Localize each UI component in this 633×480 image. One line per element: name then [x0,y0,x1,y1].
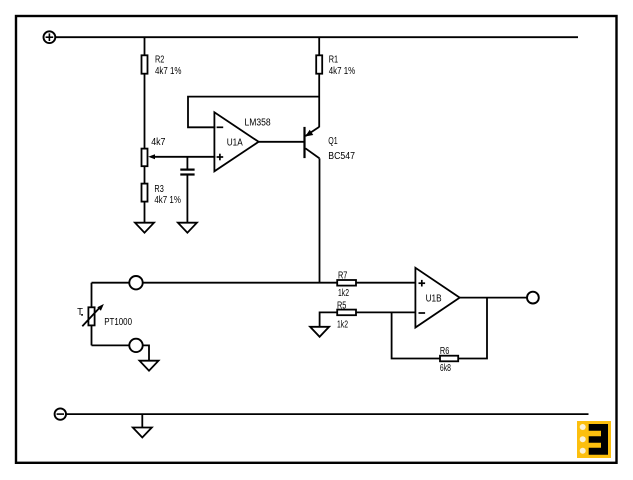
svg-text:Q1: Q1 [328,136,338,147]
wire R1 bottom to Q1 emitter [318,74,320,128]
svg-text:R2: R2 [155,55,165,66]
wire pot wiper to U1A plus input [154,156,215,158]
ground below capacitor [178,223,197,233]
potentiometer 4k7 [142,137,166,166]
svg-text:T: T [77,307,83,318]
ground on bottom rail [133,428,152,438]
wire R2 bottom to pot top [144,74,146,149]
wire U1B output [460,297,527,299]
svg-text:BC547: BC547 [328,151,355,162]
wire Q1 collector down [319,158,321,282]
svg-text:R6: R6 [440,346,450,357]
svg-text:U1B: U1B [426,293,442,304]
wire pot bottom to R3 top [144,166,146,183]
resistor R1 [316,55,355,77]
op-amp U1B [415,268,459,328]
wire R5 to U1B minus input [356,311,416,313]
svg-text:6k8: 6k8 [440,363,451,374]
svg-text:1k2: 1k2 [337,319,348,330]
logo badge [577,421,611,458]
wire U1A inverting input feedback [188,97,319,128]
resistor R7 [337,271,356,300]
wire bottom rail [66,413,589,415]
svg-text:R5: R5 [337,300,347,311]
wire U1A output to Q1 base [259,141,305,143]
resistor R2 [142,55,182,77]
capacitor C1 [180,170,194,175]
svg-text:U1A: U1A [227,138,243,149]
resistor R3 [142,184,181,207]
wire R7 to U1B plus input [356,282,416,284]
resistor R5 [337,300,356,330]
wire sensor terminal to R7 left [143,282,338,284]
ground below sensor [140,361,159,371]
wire sensor left vertical [91,283,93,308]
wire sensor bottom horizontal [92,344,130,346]
svg-text:4k7 1%: 4k7 1% [329,66,356,77]
svg-text:R7: R7 [338,271,348,282]
wire R1 top lead [318,37,320,55]
terminal V- (minus) [55,408,66,419]
terminal sensor bottom [129,339,142,352]
wire top supply rail [55,36,578,38]
wire sensor bottom lead [91,325,93,345]
svg-text:PT1000: PT1000 [104,317,132,328]
wire sensor top to R7 [92,282,130,284]
resistor R6 [440,346,458,374]
terminal V+ (plus) [44,31,56,43]
svg-text:R1: R1 [329,55,339,66]
svg-text:4k7 1%: 4k7 1% [155,66,182,77]
wire R6 to output node [458,298,487,359]
terminal sensor top [129,276,142,289]
svg-text:LM358: LM358 [245,118,272,129]
wire R3 bottom lead [144,202,146,223]
wire feedback from R5 node down [392,312,440,358]
wire capacitor bottom lead [186,175,188,223]
ground below R3 [135,223,154,233]
ground at R5 left [310,327,329,337]
svg-text:4k7: 4k7 [151,137,166,148]
wire sensor bottom terminal to ground [143,345,149,360]
wire R2 top lead [144,37,146,55]
sensor PT1000 [77,304,132,328]
wire capacitor top lead [186,157,188,170]
svg-text:R3: R3 [154,184,164,195]
svg-text:4k7 1%: 4k7 1% [154,195,181,206]
op-amp U1A [214,112,271,171]
svg-text:1k2: 1k2 [338,288,349,299]
wire bottom rail ground stub [141,414,143,427]
terminal output [527,292,539,304]
wire R5 ground stub [320,312,338,326]
transistor Q1 [305,127,356,162]
